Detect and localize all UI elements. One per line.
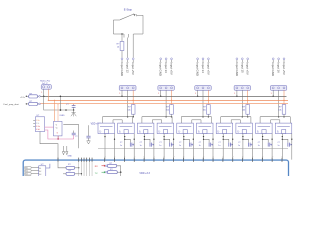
- transistor Q8: [236, 123, 253, 133]
- junction Q3 source: [144, 136, 145, 137]
- svg-text:Q?: Q?: [139, 130, 141, 132]
- node Input +5V port 3: [208, 58, 210, 60]
- wire Q9 source drop: [262, 134, 264, 160]
- wire Q6 source drop: [203, 134, 205, 160]
- svg-text:p: p: [252, 156, 254, 157]
- svg-text:1: 1: [158, 93, 159, 95]
- sheet Arduino module: [23, 160, 288, 184]
- wire into R9: [26, 103, 28, 105]
- wire gate line pair 3: [181, 116, 211, 118]
- wire drain line pair 1: [113, 119, 122, 121]
- wire pink to capacitor: [73, 135, 75, 139]
- svg-text:p: p: [134, 156, 136, 157]
- wire switch left leg: [112, 20, 114, 34]
- junction +5V bus 2: [171, 100, 172, 101]
- junction GND bus 2: [160, 96, 162, 98]
- svg-text:10k: 10k: [166, 109, 169, 111]
- svg-text:Input GND: Input GND: [159, 62, 163, 76]
- transistor Q5: [177, 123, 194, 133]
- junction Q1 source: [104, 136, 105, 137]
- wire below R14: [283, 114, 285, 117]
- wire stubs into Q4: [161, 120, 163, 123]
- wire jog to C15: [204, 139, 210, 142]
- wire R5 right: [75, 167, 79, 169]
- switch SW1 right contact: [137, 14, 143, 16]
- capacitor C3: [86, 135, 90, 137]
- wire Q10 drain drop: [291, 134, 293, 160]
- ground chassis symbol: [73, 110, 75, 113]
- wire Q8 source drop: [242, 134, 244, 160]
- wire gate line pair 4: [221, 116, 251, 118]
- wire sheet pin D12: [212, 158, 214, 162]
- wire below R1: [121, 51, 123, 58]
- svg-text:Input +5V: Input +5V: [246, 62, 250, 75]
- svg-text:10k: 10k: [203, 109, 206, 111]
- svg-text:R?: R?: [128, 107, 131, 109]
- wire sheet pin D2: [114, 158, 116, 162]
- wire VDD stub: [88, 125, 90, 136]
- junction below R13: [247, 116, 249, 118]
- wire pin3 drop: [132, 34, 134, 58]
- svg-text:1u: 1u: [238, 145, 240, 147]
- wire Q6 drain drop: [212, 134, 214, 160]
- wire Q5 source drop: [183, 134, 185, 160]
- resistor R10 10k: [131, 105, 135, 115]
- transistor Q1: [98, 123, 115, 133]
- svg-text:C?: C?: [218, 142, 220, 144]
- junction R6 bundle: [81, 173, 82, 174]
- wire GND drop J5: [236, 90, 238, 96]
- wire jog to C14: [184, 139, 190, 142]
- node Input 16 port: [278, 58, 280, 60]
- junction below R12: [208, 116, 210, 118]
- connector J6 1x3: [270, 86, 286, 91]
- svg-text:Input 14: Input 14: [201, 62, 205, 73]
- svg-text:p: p: [154, 156, 156, 157]
- wire sheet pin U1 feed: [57, 158, 59, 162]
- wire U1 right stub upper pink: [45, 126, 55, 128]
- transistor Q3: [137, 123, 154, 133]
- svg-text:R?: R?: [243, 107, 246, 109]
- wire R10 right: [117, 171, 120, 173]
- junction gate line 1: [127, 116, 129, 118]
- svg-text:Input GND: Input GND: [196, 62, 200, 76]
- node Input +5V port 5: [283, 58, 285, 60]
- port rows inside sheet: [25, 166, 32, 169]
- svg-text:1u: 1u: [179, 145, 181, 147]
- junction +5V bus 4: [247, 100, 248, 101]
- junction +5V bus 5: [283, 100, 284, 101]
- wire Q8 drain drop: [251, 134, 253, 160]
- wire signal drop J5: [241, 90, 243, 116]
- junction Q8 source: [242, 136, 243, 137]
- wire +5V drop J4: [207, 90, 209, 104]
- junction Q2 drain: [134, 139, 135, 140]
- svg-text:p: p: [163, 156, 165, 157]
- resistor R1 pulldown: [120, 42, 124, 51]
- wire Q3 drain drop: [153, 134, 155, 160]
- svg-text:Input GND: Input GND: [271, 62, 275, 76]
- svg-text:p: p: [203, 156, 205, 157]
- node Input +5V port 2: [171, 58, 173, 60]
- wire label stubs 1: [121, 60, 123, 62]
- junction Q1 drain: [114, 139, 115, 140]
- wire below R13: [247, 114, 249, 117]
- resistor R13 10k: [246, 105, 250, 115]
- wire GND drop J2: [121, 90, 123, 96]
- wire stubs into Q6: [200, 120, 202, 123]
- wire label stubs 2: [160, 60, 162, 62]
- wire sheet pin D5: [143, 158, 145, 162]
- transistor Q7: [216, 123, 233, 133]
- junction +12V bus start: [48, 100, 49, 101]
- wire jog to C16: [223, 139, 229, 142]
- svg-text:Q?: Q?: [258, 130, 260, 132]
- svg-text:1u: 1u: [258, 145, 260, 147]
- svg-text:4 Gd: 4 Gd: [36, 129, 39, 131]
- svg-text:Input +5V: Input +5V: [282, 62, 286, 75]
- wire U2 right to rail: [63, 124, 78, 148]
- wire tab stubs below switch box: [123, 34, 125, 38]
- wire jog to C17: [243, 139, 249, 142]
- junction Q5 drain: [193, 139, 194, 140]
- resistor R14 10k: [282, 105, 286, 115]
- wire label stubs 3: [197, 60, 199, 62]
- svg-text:Q?: Q?: [100, 130, 102, 132]
- wire Q7 drain drop: [232, 134, 234, 160]
- svg-text:Input 13: Input 13: [164, 62, 168, 73]
- junction gate line 5: [278, 116, 280, 118]
- svg-text:1: 1: [41, 92, 42, 94]
- ground arrow B: [66, 146, 68, 152]
- wire jog to C12: [144, 139, 150, 142]
- junction GND bus 5: [272, 96, 274, 98]
- wire +5V drop J3: [171, 90, 173, 104]
- ground arrow A: [63, 146, 65, 152]
- wire gate line pair 2: [142, 116, 172, 118]
- wire jog to C18: [263, 139, 269, 142]
- wire signal drop J6: [278, 90, 280, 116]
- wire stubs into Q9: [259, 117, 261, 123]
- junction J1 GND: [43, 96, 45, 98]
- junction GND bus 1: [121, 96, 123, 98]
- transistor Q4: [157, 123, 174, 133]
- wire Q5 drain drop: [192, 134, 194, 160]
- wire GND bus horizontal: [40, 96, 286, 98]
- svg-text:p: p: [183, 156, 185, 157]
- wire label stubs 4: [236, 60, 238, 62]
- svg-text:C?: C?: [66, 104, 69, 106]
- svg-text:C?: C?: [120, 142, 122, 144]
- connector J1 1x2: [41, 85, 51, 90]
- junction GND bus 3: [197, 96, 199, 98]
- wire Q4 drain drop: [173, 134, 175, 160]
- svg-text:C?: C?: [159, 142, 161, 144]
- svg-text:1u: 1u: [199, 145, 201, 147]
- svg-text:R?: R?: [117, 44, 120, 46]
- wire sheet pin D11: [202, 158, 204, 162]
- svg-text:Q?: Q?: [199, 130, 201, 132]
- wire sheet pin D6: [153, 158, 155, 162]
- wire pin1 drop to resistor: [121, 34, 123, 42]
- transistor Q9: [256, 123, 273, 133]
- wire into R8: [26, 95, 28, 97]
- junction Q8 drain: [252, 139, 253, 140]
- junction R5 bundle: [78, 167, 79, 168]
- resistor R11 10k: [170, 105, 174, 115]
- svg-text:C?: C?: [75, 136, 77, 138]
- svg-text:10k: 10k: [278, 109, 281, 111]
- svg-text:Input 16: Input 16: [277, 62, 281, 73]
- wire drain line pair 2: [152, 119, 161, 121]
- svg-text:p: p: [242, 156, 244, 157]
- wire orange feed B to U2: [57, 104, 59, 122]
- pin circle R9 right: [38, 103, 39, 105]
- node Input GND port 2: [160, 58, 162, 60]
- svg-text:Q?: Q?: [179, 130, 181, 132]
- svg-text:p: p: [104, 156, 106, 157]
- wire sheet pin D13: [222, 158, 224, 162]
- wire GND feed to U2: [59, 96, 61, 110]
- wire source rail: [98, 147, 288, 149]
- ground below C3: [88, 138, 90, 141]
- junction +5V bus 3: [208, 100, 209, 101]
- svg-text:1 Vi+: 1 Vi+: [36, 120, 40, 122]
- svg-text:1u: 1u: [218, 145, 220, 147]
- svg-text:1u: 1u: [278, 145, 280, 147]
- svg-text:R?: R?: [279, 107, 282, 109]
- IC U2: [54, 121, 63, 135]
- svg-text:Input +5V: Input +5V: [170, 62, 174, 75]
- svg-text:Input 12: Input 12: [126, 62, 130, 73]
- svg-text:Input GND: Input GND: [235, 62, 239, 76]
- wire +12V bus orange: [48, 100, 288, 102]
- junction pink net: [57, 138, 58, 139]
- connector J5 1x3: [234, 86, 250, 91]
- junction Q6 drain: [212, 139, 213, 140]
- svg-text:Input +5V: Input +5V: [131, 62, 135, 75]
- wire Q2 source drop: [124, 134, 126, 160]
- wire Q7 source drop: [222, 134, 224, 160]
- svg-text:Q?: Q?: [277, 130, 279, 132]
- svg-text:CGND: CGND: [59, 115, 65, 117]
- node Input 12 port: [127, 58, 129, 60]
- svg-text:C?: C?: [140, 142, 142, 144]
- wire orange feed A to U2: [54, 100, 56, 121]
- wire below R10: [132, 114, 134, 117]
- node Input GND port 5: [272, 58, 274, 60]
- svg-text:p: p: [262, 156, 264, 157]
- node Input +5V port 1: [132, 58, 134, 60]
- svg-text:10k: 10k: [242, 109, 245, 111]
- svg-text:2 Vi-: 2 Vi-: [36, 123, 40, 125]
- wire U1 bottom to box: [40, 132, 58, 160]
- flag arrow TX green: [102, 171, 106, 173]
- wire +5V bus orange: [40, 103, 288, 105]
- wire +5V drop J5: [247, 90, 249, 104]
- wire below R11: [171, 114, 173, 117]
- node Input +5V port 4: [247, 58, 249, 60]
- junction Q7 source: [223, 136, 224, 137]
- wire Q9 drain drop: [271, 134, 273, 160]
- wire sheet pins left bundle: [78, 158, 80, 162]
- svg-text:10k: 10k: [127, 109, 130, 111]
- wire gate line pair 5: [260, 116, 290, 118]
- junction gate line 3: [202, 116, 204, 118]
- transistor Q10: [275, 123, 292, 133]
- wire signal drop J4: [202, 90, 204, 116]
- svg-text:Q?: Q?: [218, 130, 220, 132]
- svg-text:C?: C?: [258, 142, 260, 144]
- wire sheet pin D8: [173, 158, 175, 162]
- wire Q4 source drop: [163, 134, 165, 160]
- transistor Q6: [197, 123, 214, 133]
- wire sheet pin D7: [163, 158, 165, 162]
- wire sheet pin D9: [183, 158, 185, 162]
- junction GND bus 4: [236, 96, 238, 98]
- wire jog to C19: [282, 139, 288, 142]
- wire sheet pin D15: [242, 158, 244, 162]
- svg-text:Vo: Vo: [56, 128, 58, 130]
- svg-text:p: p: [232, 156, 234, 157]
- wire sheet pin D14: [232, 158, 234, 162]
- node Input 14 port: [202, 58, 204, 60]
- svg-text:VDD +3.3: VDD +3.3: [139, 172, 150, 175]
- node Input GND port 1: [121, 58, 123, 60]
- svg-text:Q?: Q?: [238, 130, 240, 132]
- wire sheet pin D10: [192, 158, 194, 162]
- switch SW1 blade: [113, 19, 120, 21]
- junction Q4 source: [163, 136, 164, 137]
- wire U1 right stub lower pink: [45, 130, 74, 139]
- svg-text:1: 1: [271, 93, 272, 95]
- wire J1 pin2 +12V drop orange: [48, 89, 50, 100]
- svg-text:+12v: +12v: [20, 97, 26, 99]
- junction R7 R10: [120, 171, 122, 173]
- junction Q9 drain: [271, 139, 272, 140]
- wire stubs into Q7: [220, 117, 222, 123]
- connector J4 1x3: [195, 86, 211, 91]
- junction below R10: [132, 116, 134, 118]
- svg-text:1: 1: [119, 93, 120, 95]
- wire R6 left stub: [63, 173, 66, 175]
- pin circle R8 right: [38, 95, 39, 97]
- wire switch bottom left segment: [113, 33, 124, 35]
- connector J3 1x3: [158, 86, 174, 91]
- svg-text:1u: 1u: [120, 145, 122, 147]
- svg-text:1u: 1u: [140, 145, 142, 147]
- wire sheet pin D4: [133, 158, 135, 162]
- wire U2 bottom crimson: [57, 136, 59, 139]
- wire sheet pin D1: [104, 158, 106, 162]
- wire stubs into Q8: [239, 120, 241, 123]
- wire Q2 drain drop: [133, 134, 135, 160]
- svg-text:1: 1: [195, 93, 196, 95]
- svg-text:p: p: [124, 156, 126, 157]
- node Input GND port 4: [236, 58, 238, 60]
- wire jog to C13: [164, 139, 170, 142]
- svg-text:2k: 2k: [117, 47, 119, 49]
- junction Q10 source: [282, 136, 283, 137]
- svg-text:1u: 1u: [159, 145, 161, 147]
- junction below R14: [283, 116, 285, 118]
- wire Q1 drain drop: [114, 134, 116, 160]
- wire drain line pair 4: [231, 119, 240, 121]
- wire switch right leg: [142, 15, 144, 34]
- wire GND drop J6: [272, 90, 274, 96]
- junction below R11: [171, 116, 173, 118]
- wire R5 left: [58, 162, 66, 168]
- svg-text:p: p: [223, 156, 225, 157]
- svg-text:Input +5V: Input +5V: [206, 62, 210, 75]
- wire gate line pair 1: [103, 116, 133, 118]
- capacitor C2 on pink net: [72, 134, 76, 136]
- wire GND drop J4: [197, 90, 199, 96]
- junction Q7 drain: [232, 139, 233, 140]
- svg-text:GND: GND: [68, 155, 73, 157]
- junction Q4 drain: [173, 139, 174, 140]
- wire stubs into Q10: [279, 120, 281, 123]
- junction +5V bus 1: [133, 100, 134, 101]
- junction on switch bottom: [121, 33, 123, 35]
- svg-text:p: p: [144, 156, 146, 157]
- wire J1 pin1 GND drop: [43, 89, 45, 96]
- wire stubs into Q2: [121, 120, 123, 123]
- wire drain line pair 3: [192, 119, 201, 121]
- wire GND drop J3: [160, 90, 162, 96]
- wire U1 left stubs: [33, 119, 35, 121]
- resistor R12 10k: [207, 105, 211, 115]
- wire stubs into Q5: [180, 117, 182, 123]
- wire stubs into Q3: [141, 117, 143, 123]
- node Input GND port 3: [197, 58, 199, 60]
- wire pin2 drop: [127, 38, 129, 58]
- svg-text:C?: C?: [199, 142, 201, 144]
- junction left of R8: [26, 96, 27, 97]
- wire stubs into Q1: [102, 117, 104, 123]
- wire signal drop J2: [127, 90, 129, 116]
- junction GND line x60: [60, 109, 62, 111]
- wire sheet pin D3: [123, 158, 125, 162]
- junction GND line x66: [65, 109, 67, 111]
- wire R7 right: [117, 166, 121, 172]
- junction gate line 4: [242, 116, 244, 118]
- node Input 15 port: [241, 58, 243, 60]
- wire label stubs 5: [272, 60, 274, 62]
- junction Q6 source: [203, 136, 204, 137]
- svg-text:R?: R?: [166, 107, 169, 109]
- svg-text:Input 15: Input 15: [240, 62, 244, 73]
- svg-text:1: 1: [234, 93, 235, 95]
- junction Q3 drain: [153, 139, 154, 140]
- junction gate line 2: [165, 116, 167, 118]
- wire U3 right up: [46, 164, 50, 168]
- svg-text:C?: C?: [278, 142, 280, 144]
- wire sheet pin D16: [251, 158, 253, 162]
- wire drain line pair 5: [271, 119, 280, 121]
- junction Q10 drain: [291, 139, 292, 140]
- svg-text:p: p: [282, 156, 284, 157]
- flag arrow RX red: [102, 165, 106, 167]
- wire signal drop J3: [165, 90, 167, 116]
- svg-text:Input GND: Input GND: [120, 62, 124, 76]
- svg-text:Fuel_pmp_dout: Fuel_pmp_dout: [4, 103, 20, 106]
- svg-text:E-Stop: E-Stop: [124, 8, 133, 12]
- node Input 13 port: [165, 58, 167, 60]
- svg-text:C?: C?: [238, 142, 240, 144]
- junction Q5 source: [183, 136, 184, 137]
- junction left of R9: [26, 103, 27, 104]
